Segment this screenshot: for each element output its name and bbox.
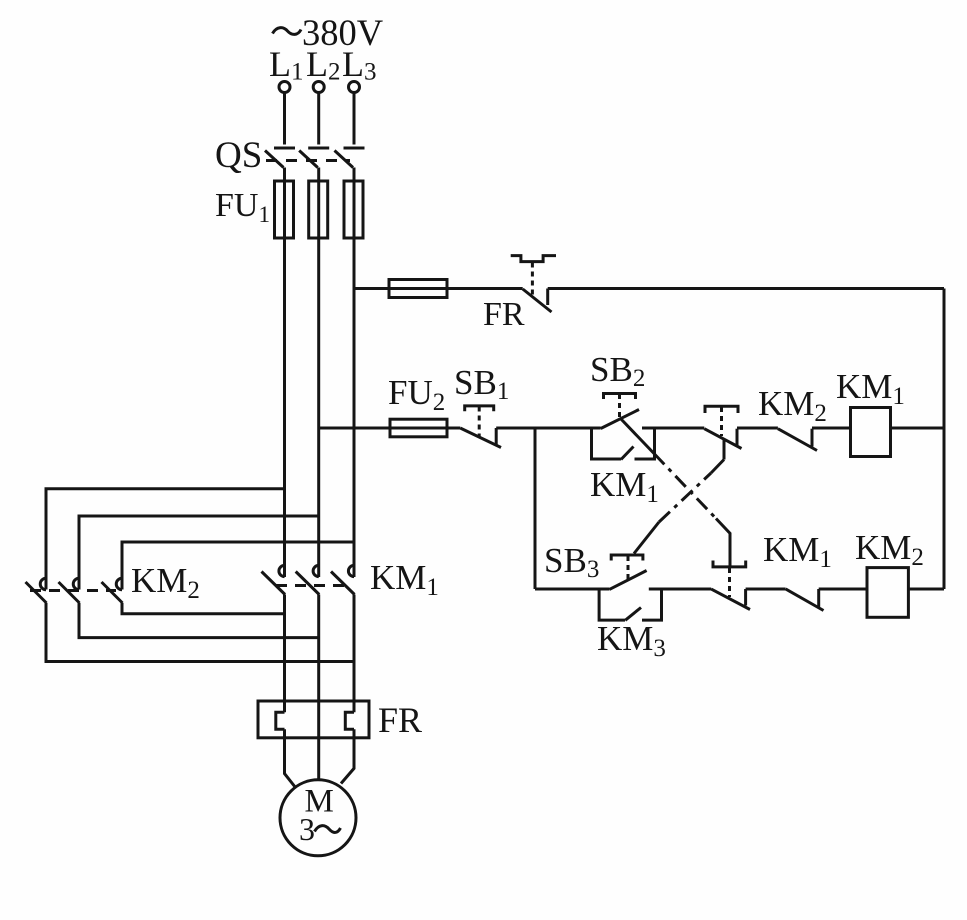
wire coil KM2 to right rail — [908, 588, 944, 591]
wire QS to FU1 col2 — [317, 168, 320, 182]
linked contact (SB2) row2 cap — [713, 561, 746, 567]
contactor KM1 main pole3 arc — [348, 565, 354, 576]
linkage A SB2 to row2 contact (dash-dot) — [621, 419, 654, 454]
relay FR heater box — [258, 701, 369, 738]
contact KM1 interlock blade (NC) — [786, 589, 824, 611]
relay contact FR dashed stem — [531, 263, 534, 296]
terminal L2 — [313, 82, 324, 93]
linked contact row1 right stub — [736, 429, 739, 447]
wire coil KM1 to right rail — [891, 427, 945, 430]
terminal L3 — [349, 82, 360, 93]
wire FR branch left — [354, 287, 523, 290]
wire SB2 to linked contact — [642, 427, 704, 430]
contact KM1 aux blade — [621, 447, 634, 460]
button SB1 right stub — [495, 428, 498, 445]
contact KM1 interlock right stub — [817, 589, 820, 607]
linked contact row2 right stub — [744, 589, 747, 606]
contactor KM2 main pole1 blade — [26, 582, 47, 603]
relay FR heater jog col3 — [345, 712, 354, 729]
wire row2 from node — [535, 588, 609, 591]
motor M circle — [280, 780, 356, 856]
fuse FU1 pole 3 — [344, 181, 363, 238]
coil KM1 — [851, 408, 891, 457]
relay contact FR blade — [523, 289, 552, 312]
svg-text:FR: FR — [378, 700, 422, 740]
fuse FU1 pole 2 — [309, 181, 328, 238]
button SB3 cap — [611, 555, 643, 561]
contact KM1 aux branch right — [635, 428, 655, 459]
wire FR branch right — [548, 287, 944, 290]
contact KM3 aux blade — [625, 608, 641, 621]
contactor KM2 main pole3 blade — [102, 582, 123, 603]
contactor KM2 main pole1 arc — [40, 578, 46, 590]
wire L1 to QS — [283, 93, 286, 145]
relay contact FR (NC) thermal bracket — [511, 256, 556, 262]
contact KM3 aux branch left — [599, 589, 625, 620]
switch QS linkage dashed — [266, 159, 350, 162]
terminal L1 — [279, 82, 290, 93]
wire KM2 pole1 down and across to col3 — [46, 603, 354, 662]
wire QS to FU1 col1 — [283, 168, 286, 182]
wire col1 KM1 to FR box — [283, 595, 286, 713]
linked contact row1 blade (NC) — [704, 429, 741, 449]
wire linked contact to KM1 contact row2 — [746, 588, 786, 591]
contact KM2 interlock blade (NC) — [778, 429, 817, 451]
contactor KM2 main pole2 arc — [73, 578, 79, 590]
wire col2 KM1 to motor — [317, 595, 320, 781]
contact KM2 interlock right stub — [811, 429, 814, 447]
svg-text:QS: QS — [215, 135, 262, 176]
fuse on FR branch — [389, 280, 447, 298]
button SB1 blade (NC) — [460, 428, 501, 448]
wire KM2 pole3 down and across to col1 — [122, 603, 285, 614]
linkage B SB3 to row1 contact (dash-dot) — [634, 522, 659, 554]
contactor KM1 main pole2 blade — [296, 572, 320, 595]
wire SB3 to linked contact row2 — [649, 588, 711, 591]
button SB3 blade (NO) — [609, 571, 646, 590]
contact KM1 aux branch left — [592, 428, 622, 459]
button SB2 dashed stem — [618, 394, 621, 419]
wire column L3 down to KM1 contact — [353, 181, 356, 577]
button SB1 dashed stem — [478, 407, 481, 437]
linked contact (SB3) row1 cap — [705, 406, 738, 413]
svg-text:FR: FR — [483, 296, 525, 333]
svg-text:3: 3 — [299, 811, 315, 847]
coil KM2 — [867, 568, 908, 618]
wire SB1 to node — [496, 427, 535, 430]
wire KM1 contact to coil KM2 — [819, 588, 867, 591]
wire node to SB2 — [535, 427, 601, 430]
contactor KM1 main pole1 blade — [262, 572, 286, 595]
button SB3 dashed stem — [627, 556, 630, 580]
contactor KM1 main pole3 blade — [331, 572, 355, 595]
wire branch top row to KM2 group pole3 — [122, 542, 354, 590]
fuse FU2 — [390, 419, 447, 437]
wire L3 to QS — [353, 93, 356, 145]
wire col3 FR to motor — [341, 729, 354, 783]
linked contact row2 dashed stem — [728, 568, 731, 597]
wire column L2 down to KM1 contact — [317, 181, 320, 577]
fuse FU1 pole 1 — [275, 181, 294, 238]
wire control row1 from L2 — [319, 427, 461, 430]
wire KM2 contact to coil KM1 — [812, 427, 851, 430]
wire QS to FU1 col3 — [353, 168, 356, 182]
button SB2 blade (NO) — [601, 410, 639, 429]
relay FR heater jog col1 — [276, 712, 285, 729]
wire KM2 pole2 down and across to col2 — [79, 603, 319, 638]
linked contact row2 blade (NC) — [711, 589, 750, 610]
wire col3 KM1 to FR box — [353, 595, 356, 713]
contactor KM1 linkage dashed — [276, 584, 352, 587]
label ~380V supply — [273, 28, 302, 35]
switch QS pole 3 — [335, 148, 365, 168]
button SB1 cap — [465, 406, 494, 411]
contactor KM2 linkage dashed — [30, 589, 116, 592]
contactor KM1 main pole1 arc — [279, 565, 285, 576]
contactor KM2 main pole3 arc — [116, 578, 122, 590]
wire right rail — [943, 289, 946, 590]
contactor KM1 main pole2 arc — [313, 565, 319, 576]
linked contact row1 linkage tail — [723, 440, 726, 460]
wire col1 FR to motor — [285, 729, 296, 787]
wire branch top row to KM2 group pole2 — [79, 516, 319, 590]
wire node drop to row2 — [534, 428, 537, 589]
switch QS pole 2 — [299, 148, 329, 168]
contact KM3 aux branch right — [642, 589, 662, 620]
wire L2 to QS — [317, 93, 320, 145]
wire linked contact to KM2 contact — [737, 427, 778, 430]
switch QS pole 1 — [265, 148, 295, 168]
wire branch top row to KM2 group pole1 — [46, 489, 285, 590]
wire column L1 down to KM1 contact — [283, 181, 286, 577]
relay contact FR right stub — [546, 289, 549, 306]
linked contact row1 dashed stem — [720, 407, 723, 436]
contactor KM2 main pole2 blade — [59, 582, 80, 603]
button SB2 cap — [604, 394, 636, 400]
